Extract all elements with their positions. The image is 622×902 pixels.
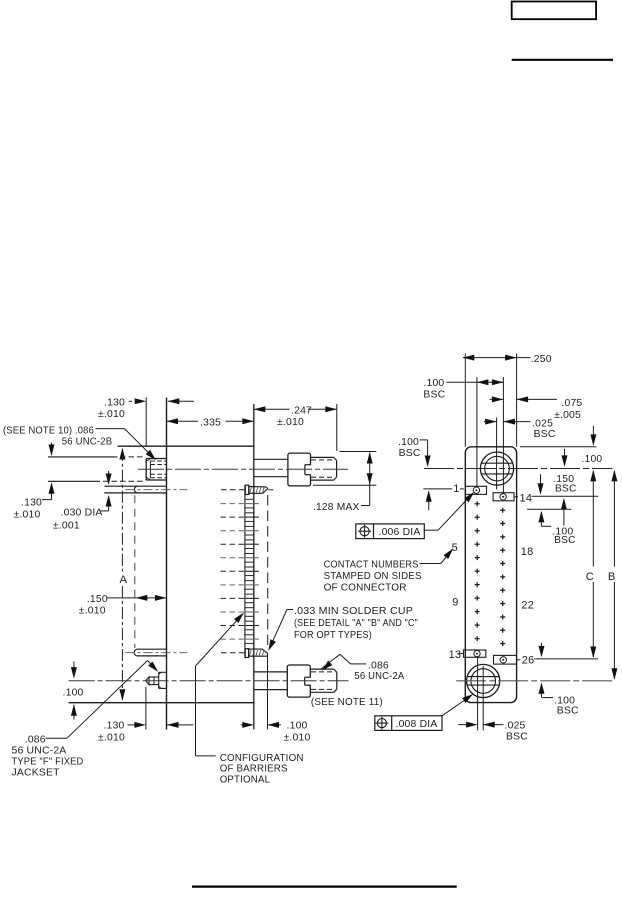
solder cup contact 1 <box>245 485 249 494</box>
svg-text:.086: .086 <box>368 660 389 671</box>
svg-text:.130: .130 <box>21 497 42 508</box>
dimension line B (centerline to centerline) <box>611 470 617 482</box>
svg-text:.030 DIA: .030 DIA <box>61 508 103 519</box>
barrier tab contact 9 <box>245 593 254 595</box>
row 13 leader <box>458 653 463 655</box>
svg-text:9: 9 <box>452 596 458 608</box>
dimension .075 +-.005 <box>490 398 504 400</box>
svg-text:OF CONNECTOR: OF CONNECTOR <box>324 583 407 594</box>
leader to jackscrew (.086 56 UNC-2A TYPE F) <box>67 661 148 739</box>
leader to contact 5 area <box>420 563 441 565</box>
extension lines above right view <box>464 354 466 447</box>
header rule line <box>512 59 613 61</box>
svg-text:.100: .100 <box>287 721 308 732</box>
jackscrew upper: shaft <box>254 458 288 460</box>
jackscrew lower centerline <box>69 680 349 682</box>
guide pin upper <box>104 485 166 487</box>
svg-text:26: 26 <box>522 655 535 667</box>
mounting hole lower with screw slot <box>467 664 500 697</box>
dimension .130 bushing (left) <box>51 443 53 455</box>
right view: connector body rounded outline <box>465 447 516 703</box>
svg-text:±.001: ±.001 <box>53 520 80 531</box>
svg-text:±.010: ±.010 <box>79 606 106 617</box>
jackscrew lower: thread hidden lines <box>311 671 335 673</box>
svg-text:±.005: ±.005 <box>554 410 581 421</box>
mounting hole upper with screw slot <box>480 452 513 485</box>
dimension .100 (jackscrew center to bottom) <box>73 662 75 678</box>
contact 1 centerline dashes <box>221 489 245 491</box>
svg-text:.100: .100 <box>63 688 84 699</box>
svg-text:BSC: BSC <box>555 484 577 495</box>
dimension .025 BSC lower hole offset <box>458 724 467 726</box>
svg-text:.075: .075 <box>561 398 582 409</box>
dimension .247 screw length <box>254 408 290 410</box>
svg-text:CONTACT NUMBERS: CONTACT NUMBERS <box>324 559 419 570</box>
svg-text:BSC: BSC <box>554 535 576 546</box>
jackscrew upper: knurled head <box>288 453 311 486</box>
dimension .150 BSC centerline to row 14 <box>564 449 566 466</box>
barrier tab contact 8 <box>245 580 254 582</box>
dimension .100 BSC row 14 to row 15 <box>540 474 542 493</box>
svg-text:TYPE "F" FIXED: TYPE "F" FIXED <box>12 757 84 768</box>
leader SEE NOTE 10 / 56 UNC-2B <box>96 428 125 430</box>
barrier tab contact 7 <box>245 566 254 568</box>
dimension .100 BSC row 26 to lower centerline <box>541 643 543 656</box>
jackscrew upper: threaded end <box>311 456 334 458</box>
contact 13 marker box <box>464 650 486 657</box>
svg-text:.100: .100 <box>398 437 419 448</box>
phantom line barrier hidden edge <box>134 495 136 648</box>
row 14 extension right <box>532 495 599 497</box>
barrier tab contact 12 <box>245 634 254 636</box>
dimension .150 barrier depth <box>107 597 166 599</box>
threaded bushing 56 UNC-2B <box>145 459 147 481</box>
svg-text:BSC: BSC <box>423 389 445 400</box>
jackscrew upper: thread hidden lines <box>311 459 335 461</box>
dimension .100 BSC centerline to row 1 (left side) <box>420 439 428 441</box>
phantom line mating face <box>267 495 269 648</box>
svg-text:.247: .247 <box>291 405 312 416</box>
svg-text:56 UNC-2A: 56 UNC-2A <box>354 671 404 682</box>
left view: connector body outline <box>166 398 168 730</box>
leader CONFIGURATION OF BARRIERS OPTIONAL <box>195 666 197 756</box>
row 26 extension right <box>534 658 598 660</box>
barrier tab contact 11 <box>245 620 254 622</box>
svg-text:13: 13 <box>449 649 462 661</box>
svg-text:CONFIGURATION: CONFIGURATION <box>220 753 304 764</box>
svg-text:±.010: ±.010 <box>277 417 304 428</box>
dimension .130 bushing length (top) <box>129 400 132 402</box>
svg-text:BSC: BSC <box>506 732 528 743</box>
svg-text:±.010: ±.010 <box>98 732 125 743</box>
svg-text:OPTIONAL: OPTIONAL <box>220 775 271 786</box>
centerline lower hole <box>456 680 612 682</box>
dimension .025 BSC hole offset (top) <box>484 421 497 423</box>
contact cross marks column 14-26 <box>500 508 505 646</box>
contact 1 marker box <box>466 486 487 494</box>
dimension .130 flange thickness (bottom) <box>128 724 137 726</box>
svg-text:56 UNC-2B: 56 UNC-2B <box>62 437 113 448</box>
svg-text:±.010: ±.010 <box>14 509 41 520</box>
svg-text:(SEE NOTE 10) .086: (SEE NOTE 10) .086 <box>3 426 94 437</box>
jackscrew lower: threaded end <box>310 668 334 670</box>
contact 14 marker box <box>493 493 514 501</box>
dimension line C (centerline to row 26) <box>590 470 596 482</box>
svg-text:JACKSET: JACKSET <box>12 768 61 779</box>
svg-text:.250: .250 <box>531 354 552 365</box>
solder cup contact 13 <box>245 649 248 658</box>
jackscrew upper centerline <box>138 468 348 470</box>
dimension .128 MAX screw head <box>340 451 377 453</box>
svg-text:.006 DIA: .006 DIA <box>379 527 421 538</box>
row 1 extension line and leaders <box>423 488 452 490</box>
svg-text:±.010: ±.010 <box>98 409 125 420</box>
contact 13 centerline dashes <box>221 652 245 654</box>
svg-text:.128 MAX: .128 MAX <box>313 502 360 513</box>
svg-text:.130: .130 <box>104 398 125 409</box>
extension line flange face bottom <box>145 687 147 730</box>
svg-text:FOR OPT TYPES): FOR OPT TYPES) <box>294 630 372 641</box>
dimension .030 DIA pin <box>108 471 110 484</box>
extension line solder cup face bottom <box>267 653 269 730</box>
hidden lines of bushing hole <box>48 456 118 458</box>
barrier tab contact 10 <box>245 607 254 609</box>
svg-text:A: A <box>120 574 128 586</box>
svg-text:5: 5 <box>452 542 458 554</box>
svg-text:.086: .086 <box>25 734 46 745</box>
dimension .335 body width <box>167 420 199 422</box>
svg-text:.130: .130 <box>104 721 125 732</box>
svg-text:.025: .025 <box>505 721 526 732</box>
svg-text:56 UNC-2A: 56 UNC-2A <box>12 746 67 757</box>
svg-text:.335: .335 <box>200 418 221 429</box>
svg-text:B: B <box>608 571 616 583</box>
dimension .250 <box>463 357 531 359</box>
barrier tab contact 2 <box>245 498 254 500</box>
guide pin centerline <box>126 489 188 491</box>
footer rule line <box>192 885 457 887</box>
svg-text:.033 MIN SOLDER CUP: .033 MIN SOLDER CUP <box>294 606 413 617</box>
leader .033 MIN SOLDER CUP <box>287 609 293 611</box>
svg-text:STAMPED ON SIDES: STAMPED ON SIDES <box>324 571 422 582</box>
svg-text:18: 18 <box>521 546 534 558</box>
svg-text:.100: .100 <box>581 454 602 465</box>
leader from .006 DIA to contact 1 <box>424 529 438 531</box>
svg-text:.025: .025 <box>532 418 553 429</box>
row 26 leader <box>517 659 521 661</box>
row 14 leader <box>514 496 518 498</box>
barrier tab contact 6 <box>245 553 254 555</box>
svg-text:14: 14 <box>520 492 533 504</box>
svg-text:22: 22 <box>521 599 534 611</box>
contact cross marks column 1-13 <box>475 501 480 641</box>
svg-text:.008 DIA: .008 DIA <box>396 719 438 730</box>
svg-text:±.010: ±.010 <box>284 732 311 743</box>
extension line thread end <box>336 404 338 451</box>
svg-text:BSC: BSC <box>399 448 421 459</box>
guide pin lower <box>137 648 166 650</box>
dimension A line <box>121 449 123 572</box>
dimension .100 top edge to centerline <box>592 426 594 445</box>
dimension .100 body face to cup face (bottom) <box>241 724 245 726</box>
barrier tab contact 3 <box>245 512 254 514</box>
bushing thread hidden lines <box>150 460 166 462</box>
dimension .100 BSC contact rows <box>446 381 503 383</box>
svg-text:.100: .100 <box>423 378 444 389</box>
barrier tab contact 5 <box>245 539 254 541</box>
barrier tab contact 4 <box>245 525 254 527</box>
svg-text:BSC: BSC <box>534 429 556 440</box>
svg-text:(SEE DETAIL "A" "B" AND "C": (SEE DETAIL "A" "B" AND "C" <box>294 618 418 629</box>
lower pin centerline <box>126 652 188 654</box>
extension line flange face top <box>145 398 147 447</box>
page header box (empty) <box>512 2 596 20</box>
extension lines below lower hole <box>477 657 479 730</box>
feature control frame .006 DIA <box>356 524 425 539</box>
jackscrew lower: knurled head <box>287 665 310 697</box>
svg-text:(SEE NOTE 11): (SEE NOTE 11) <box>311 697 383 708</box>
leader from .008 DIA to lower hole <box>442 695 472 715</box>
barrier strip left edge <box>244 485 246 657</box>
svg-text:BSC: BSC <box>557 706 579 717</box>
svg-text:OF BARRIERS: OF BARRIERS <box>220 764 288 775</box>
fixed jackscrew tip TYPE F <box>146 677 149 685</box>
contact 26 marker box <box>494 655 517 664</box>
leader .086 56 UNC-2A (lower screw) <box>322 661 333 671</box>
svg-text:.150: .150 <box>87 594 108 605</box>
svg-text:1: 1 <box>453 483 459 495</box>
body top edge extension right <box>520 446 597 448</box>
centerline upper hole <box>424 468 613 470</box>
row 15 extension right <box>527 508 571 510</box>
jackscrew lower: shaft <box>254 671 287 673</box>
feature control frame .008 DIA <box>375 716 442 731</box>
svg-text:C: C <box>586 571 594 583</box>
